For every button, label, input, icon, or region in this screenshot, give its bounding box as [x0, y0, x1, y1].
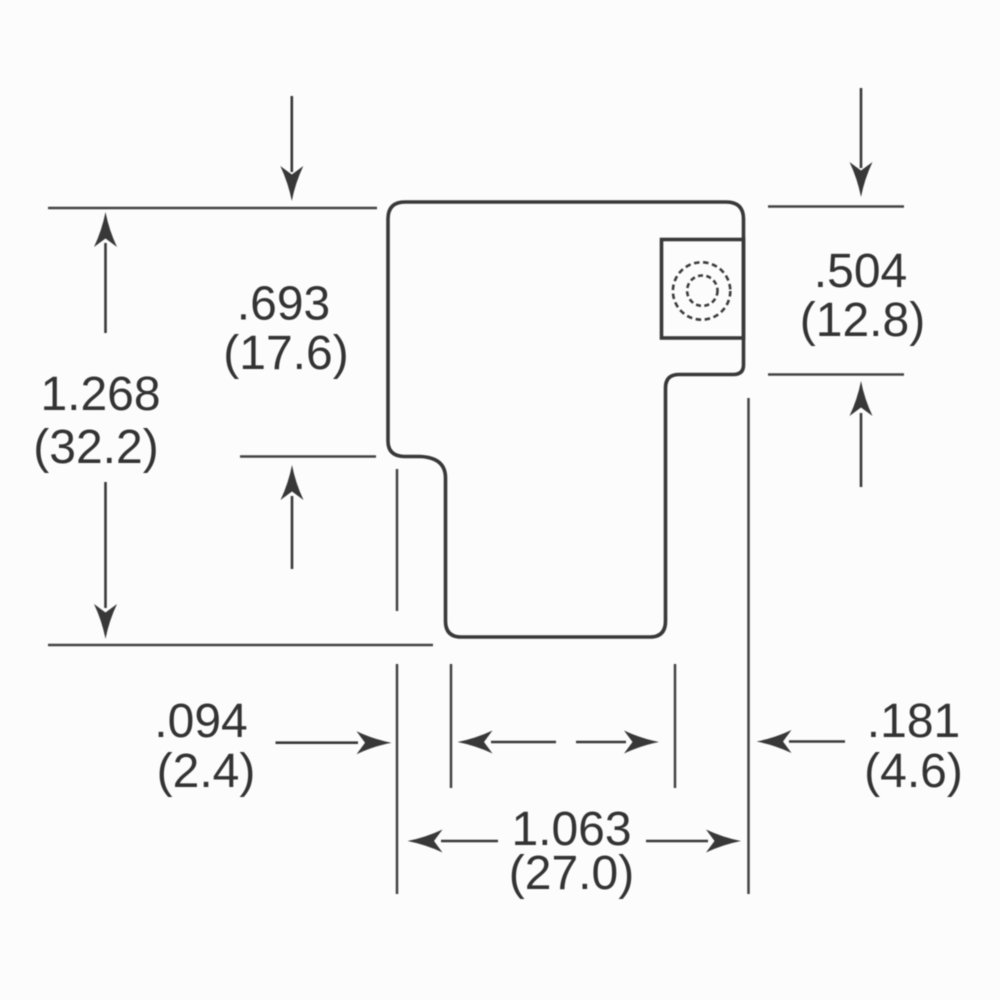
extension line top-right	[768, 205, 904, 208]
svg-text:(12.8): (12.8)	[800, 294, 925, 347]
svg-text:.504: .504	[814, 245, 907, 298]
outer dashed circle	[673, 262, 730, 319]
extension line v x397 upper	[396, 469, 399, 611]
inner dashed circle	[687, 276, 717, 306]
arrow up .504	[860, 413, 863, 487]
svg-text:(17.6): (17.6)	[223, 327, 348, 380]
svg-text:(4.6): (4.6)	[864, 745, 963, 798]
extension line v x675	[674, 664, 677, 788]
arrow left 1.063	[441, 840, 498, 843]
part outline	[388, 202, 744, 637]
arrow down top-left	[290, 96, 293, 172]
svg-text:(2.4): (2.4)	[157, 745, 256, 798]
extension line bottom	[48, 644, 433, 647]
svg-text:.094: .094	[154, 695, 247, 748]
arrow up 1.268	[104, 243, 107, 333]
arrow right .094	[276, 741, 359, 744]
svg-text:.181: .181	[867, 695, 960, 748]
arrow left .181	[789, 740, 845, 743]
extension line step	[240, 455, 376, 458]
svg-text:.693: .693	[237, 278, 330, 331]
extension line v x397 lower	[396, 664, 399, 894]
arrow right mid	[576, 741, 626, 744]
arrow left mid	[491, 741, 556, 744]
hole block rectangle	[662, 240, 744, 339]
svg-text:(32.2): (32.2)	[33, 421, 158, 474]
arrow down top-right	[860, 88, 863, 168]
extension line right-mid	[768, 373, 904, 376]
arrow up .693	[291, 496, 294, 569]
extension line v x451	[450, 664, 453, 788]
extension line top-left	[48, 207, 377, 210]
svg-text:1.268: 1.268	[40, 368, 160, 421]
arrow down 1.268	[104, 482, 107, 608]
extension line v x748	[747, 398, 750, 894]
arrow right 1.063	[646, 840, 708, 843]
svg-text:(27.0): (27.0)	[509, 847, 634, 900]
